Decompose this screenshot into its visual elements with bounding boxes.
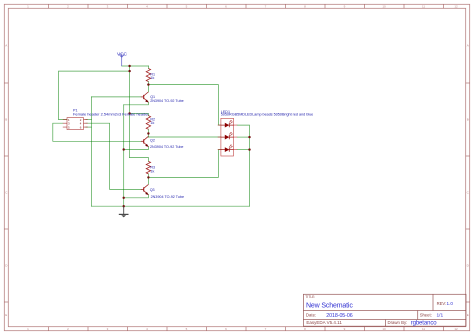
svg-text:E: E (5, 313, 7, 317)
svg-text:VCC: VCC (117, 52, 128, 58)
svg-text:1/1: 1/1 (437, 312, 444, 318)
svg-text:B: B (5, 118, 7, 122)
svg-text:Date:: Date: (306, 312, 316, 317)
svg-text:A: A (467, 44, 469, 48)
svg-text:12: 12 (454, 327, 458, 331)
svg-text:12: 12 (454, 5, 458, 9)
svg-text:10: 10 (382, 327, 386, 331)
svg-text:Q2: Q2 (150, 139, 155, 143)
svg-text:A: A (5, 44, 7, 48)
svg-text:2N3904 TO-92 Tube: 2N3904 TO-92 Tube (150, 145, 183, 149)
svg-text:11: 11 (422, 327, 425, 331)
svg-text:EasyEDA V5.4.11: EasyEDA V5.4.11 (306, 320, 342, 325)
svg-text:1k: 1k (150, 121, 154, 125)
svg-text:Sheet:: Sheet: (420, 312, 432, 317)
svg-text:New Schematic: New Schematic (306, 303, 353, 310)
svg-text:B: B (467, 118, 469, 122)
svg-text:Drawn By:: Drawn By: (388, 320, 408, 325)
svg-text:REV:: REV: (437, 301, 447, 306)
svg-text:2N3904 TO-92 Tube: 2N3904 TO-92 Tube (151, 195, 184, 199)
svg-text:rgbetanco: rgbetanco (411, 321, 438, 327)
svg-text:TITLE:: TITLE: (305, 295, 315, 299)
svg-text:Q3: Q3 (150, 188, 155, 192)
svg-text:Female header 2.54mm2x3 Female: Female header 2.54mm2x3 Female header (73, 112, 149, 117)
svg-text:E: E (467, 313, 469, 317)
svg-text:2018-05-06: 2018-05-06 (326, 313, 352, 319)
svg-text:1k: 1k (150, 169, 154, 173)
svg-text:10: 10 (382, 5, 386, 9)
svg-text:2N3904 TO-92 Tube: 2N3904 TO-92 Tube (150, 99, 183, 103)
svg-text:11: 11 (422, 5, 425, 9)
svg-text:1k: 1k (150, 76, 154, 80)
svg-text:1.0: 1.0 (447, 301, 454, 306)
svg-text:5050RGB5MDLEDLamp beads 5050Br: 5050RGB5MDLEDLamp beads 5050Bright red a… (221, 113, 313, 117)
